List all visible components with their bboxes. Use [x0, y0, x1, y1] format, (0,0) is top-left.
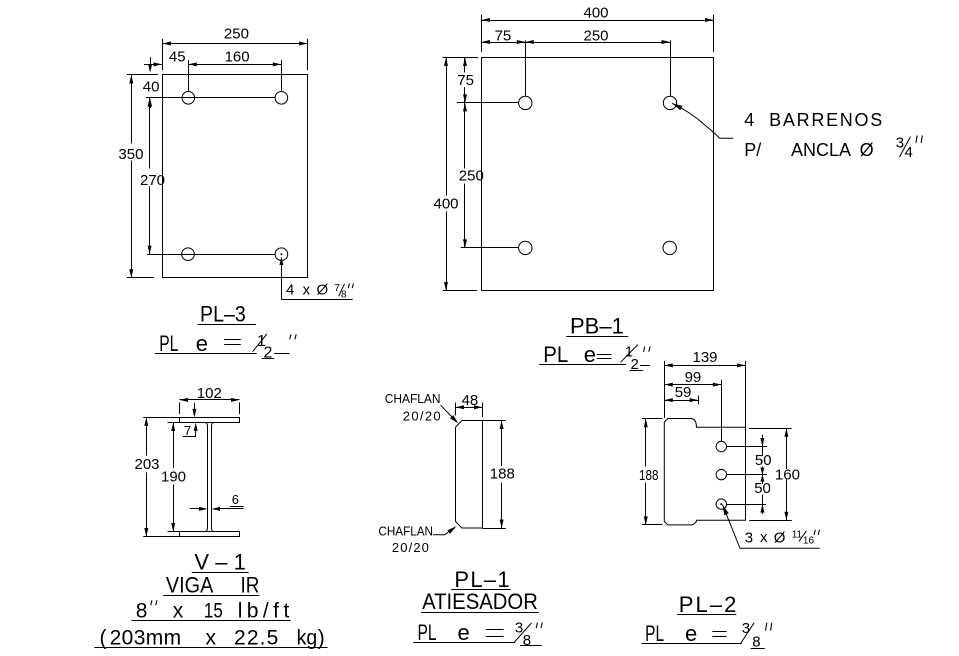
PB-1 top hole centerline: [457, 102, 519, 104]
svg-text:PL–2: PL–2: [679, 592, 739, 617]
PL-1 dim 48 extension left: [455, 403, 457, 416]
svg-text:8: 8: [136, 600, 148, 623]
PL-3 dim 270 line: [149, 98, 151, 169]
V-1 dim 203 extension bottom: [143, 536, 179, 538]
PL-3 hole leader: [281, 260, 283, 300]
svg-text:15: 15: [204, 600, 223, 623]
svg-text:4: 4: [744, 110, 754, 130]
PL-3 plate outline: [163, 75, 308, 278]
PL-2 dim 160 line: [786, 428, 788, 469]
PB-1 subtitle underline tail: [640, 365, 650, 367]
PL-2 dim 50 stack line: [762, 435, 764, 456]
svg-text:48: 48: [462, 392, 479, 409]
svg-text:7: 7: [334, 283, 340, 294]
PL-3 dim 40 upper leg: [150, 57, 152, 65]
V-1 dim 190 extension top: [168, 422, 180, 424]
svg-text:4: 4: [286, 282, 294, 299]
svg-text:50: 50: [755, 452, 772, 469]
PL-2 thickness underline: [642, 643, 742, 645]
PL-2 dim 188 extension top: [642, 418, 662, 420]
svg-text:102: 102: [197, 385, 222, 402]
PL-2 hole line middle: [727, 474, 767, 476]
PL-1 dim 188 extension bottom: [483, 528, 506, 530]
svg-text:P/: P/: [744, 140, 761, 160]
svg-text:lb/ft: lb/ft: [238, 600, 294, 623]
svg-text:CHAFLAN: CHAFLAN: [378, 524, 433, 539]
svg-text:ANCLA: ANCLA: [791, 140, 851, 160]
PL-2 dim 160 extension bottom: [749, 520, 792, 522]
svg-text:e: e: [458, 620, 470, 645]
PL-2 dim 59 line: [664, 400, 698, 402]
svg-text:BARRENOS: BARRENOS: [769, 110, 884, 130]
V-1 dim 7 underline: [183, 436, 196, 438]
svg-text:x: x: [173, 600, 184, 623]
svg-text:(: (: [100, 626, 107, 649]
PL-1 thickness underline under 8: [520, 645, 542, 647]
PL-3 hole bottom-left: [182, 248, 195, 261]
PL-3 dim 350 line: [131, 75, 133, 144]
svg-text:8: 8: [752, 634, 760, 651]
PB-1 bottom hole centerline: [461, 247, 519, 249]
svg-text:3: 3: [896, 135, 904, 152]
svg-text:7: 7: [184, 423, 191, 438]
PB-1 dim 400 top line: [482, 20, 714, 22]
svg-text:ATIESADOR: ATIESADOR: [422, 590, 538, 614]
PL-3 hole bottom-right: [275, 248, 288, 261]
PL-1 chamfer leader bottom: [433, 528, 455, 535]
svg-text:4: 4: [905, 144, 913, 161]
svg-text:50: 50: [754, 480, 771, 497]
PB-1 subtitle underline: [539, 364, 626, 366]
svg-text:203mm: 203mm: [110, 626, 182, 649]
PB-1 hole extension top-right: [670, 40, 672, 96]
PB-1 hole extension top-left: [525, 40, 527, 96]
svg-text:139: 139: [693, 349, 718, 366]
V-1 dim 102 extension left: [179, 403, 181, 415]
V-1 dim 7 upper leg: [194, 403, 196, 410]
PB-1 subtitle underline under 2: [630, 370, 644, 372]
svg-text:188: 188: [639, 467, 658, 484]
PL-2 dim 139 extension left: [664, 361, 666, 418]
PL-1 chamfer leader top: [441, 405, 457, 421]
PB-1 dim 400 top extension left: [481, 15, 483, 53]
PL-3 dim 160 line: [188, 64, 281, 66]
svg-text:e: e: [196, 331, 208, 356]
svg-text:250: 250: [224, 25, 249, 42]
PL-2 dim 139 extension right: [745, 361, 747, 427]
svg-text:Ø: Ø: [860, 140, 874, 160]
PL-3 top edge extension: [127, 74, 158, 76]
PB-1 title underline: [566, 336, 628, 338]
svg-text:270: 270: [140, 172, 165, 189]
V-1 dim 190 line: [173, 423, 175, 469]
svg-text:x: x: [206, 626, 217, 649]
PB-1 dim 75 left line: [464, 58, 466, 73]
svg-text:Ø: Ø: [317, 282, 329, 299]
PL-2 hole middle: [716, 469, 726, 479]
V-1 metric underline: [94, 647, 327, 649]
svg-text:20/20: 20/20: [392, 540, 430, 555]
svg-text:250: 250: [459, 168, 484, 185]
PL-3 hole top-left: [182, 92, 195, 105]
PL-2 hole centerline extension: [721, 380, 723, 442]
svg-text:PL: PL: [543, 343, 568, 367]
PL-2 title underline: [677, 614, 736, 616]
svg-text:kg: kg: [297, 627, 318, 650]
V-1 subtitle underline: [163, 595, 259, 597]
PB-1 dim 250 top line: [525, 42, 670, 44]
PL-1 title underline: [451, 589, 511, 591]
PL-3 dim 250 extension right: [307, 39, 309, 71]
PL-1 dim 48 extension right: [482, 403, 484, 418]
svg-text:x: x: [760, 529, 768, 546]
PB-1 leader to anchor hole: [672, 103, 682, 110]
svg-text:PB–1: PB–1: [570, 313, 624, 338]
PB-1 dim 400 left line: [446, 58, 448, 196]
PL-1 dim 48 line: [456, 407, 483, 409]
svg-text:6: 6: [232, 492, 239, 507]
svg-text:22.5: 22.5: [234, 626, 279, 649]
svg-text:203: 203: [135, 456, 160, 473]
PL-2 dim 188 line: [645, 419, 647, 467]
PL-2 hole bottom: [716, 499, 726, 509]
PB-1 hole bottom-right: [663, 241, 676, 254]
svg-text:): ): [318, 626, 325, 649]
svg-text:8: 8: [341, 289, 347, 300]
PL-3 subtitle underline under 2: [262, 358, 275, 360]
svg-text:40: 40: [143, 79, 160, 96]
svg-text:e: e: [584, 342, 596, 367]
PL-2 dim 139 line: [664, 365, 745, 367]
PL-2 hole top: [716, 441, 726, 451]
PL-1 dim 188 extension top: [483, 420, 506, 422]
svg-text:CHAFLAN: CHAFLAN: [385, 392, 441, 407]
PB-1 hole top-right: [663, 96, 676, 109]
svg-text:3: 3: [745, 529, 753, 546]
PL-2 dim 160 extension top: [749, 428, 792, 430]
PL-3 dim 250 extension left: [162, 39, 164, 70]
V-1 dim 6 underline: [230, 506, 244, 508]
V-1 dim 203 extension top: [143, 417, 179, 419]
PL-3 title underline: [198, 324, 256, 326]
PL-3 top hole centerline: [146, 97, 275, 99]
svg-text:190: 190: [161, 468, 186, 485]
PL-2 dim 188 extension bottom: [642, 524, 662, 526]
PB-1 dim 400 top extension right: [713, 15, 715, 53]
PL-2 dim 59 tick: [698, 396, 700, 405]
V-1 dim 6 right leg: [212, 507, 221, 511]
V-1 dim 190 extension bottom: [168, 531, 180, 533]
svg-text:16: 16: [803, 536, 815, 547]
svg-text:400: 400: [584, 4, 609, 21]
svg-text:45: 45: [169, 49, 186, 66]
V-1 dim 6 left leg: [190, 508, 199, 510]
PL-1 subtitle underline: [421, 612, 539, 614]
svg-text:59: 59: [675, 384, 692, 401]
PL-2 hole line bottom: [727, 504, 767, 506]
V-1 web: [205, 423, 208, 532]
PL-2 dim 99 line: [664, 384, 721, 386]
svg-text:VIGA: VIGA: [166, 573, 213, 597]
V-1 bottom flange: [180, 532, 240, 537]
svg-text:188: 188: [490, 466, 515, 483]
PB-1 dim 400 left extension top: [443, 57, 479, 59]
PL-2 hole leader: [723, 505, 729, 516]
svg-text:IR: IR: [241, 573, 260, 598]
svg-text:x: x: [303, 282, 311, 299]
svg-text:e: e: [685, 621, 697, 646]
PL-3 dim 40 lower leg: [148, 98, 152, 107]
V-1 dim 102 line: [180, 399, 240, 401]
PL-1 dim 188 line: [501, 421, 503, 467]
PL-3 hole extension right: [281, 60, 283, 91]
V-1 top flange: [180, 418, 240, 423]
PL-3 hole extension left: [188, 60, 190, 91]
PL-1 thickness underline: [413, 642, 515, 644]
PB-1 hole top-left: [519, 96, 532, 109]
svg-text:75: 75: [495, 27, 512, 44]
PL-3 bottom edge extension: [127, 277, 154, 279]
V-1 title underline: [192, 572, 249, 574]
PB-1 plate outline: [482, 58, 714, 291]
PL-1 plate outline with chamfers: [456, 421, 483, 529]
PB-1 hole bottom-left: [519, 241, 532, 254]
PL-2 thickness underline under 8: [751, 648, 765, 650]
svg-text:350: 350: [118, 146, 143, 163]
svg-text:PL–1: PL–1: [454, 567, 510, 592]
V-1 dim 102 extension right: [239, 403, 241, 415]
svg-text:20/20: 20/20: [403, 408, 442, 423]
svg-text:160: 160: [775, 466, 800, 483]
PL-3 bottom hole centerline: [147, 254, 275, 256]
svg-text:PL: PL: [159, 332, 178, 356]
PB-1 dim 400 left extension bottom: [443, 290, 477, 292]
PB-1 dim 250 left line: [464, 103, 466, 169]
V-1 dim 7 lower leg: [194, 423, 198, 432]
PB-1 dim 75 top line: [482, 42, 526, 44]
svg-text:75: 75: [457, 72, 474, 89]
PL-3 hole top-right: [275, 92, 288, 105]
svg-text:8: 8: [523, 632, 531, 649]
V-1 dim 203 line: [146, 417, 148, 455]
svg-text:250: 250: [584, 27, 609, 44]
svg-text:PL–3: PL–3: [200, 303, 246, 327]
svg-text:Ø: Ø: [774, 530, 786, 547]
PL-2 hole line top: [727, 446, 768, 448]
PL-3 subtitle underline: [155, 353, 257, 355]
svg-text:V–1: V–1: [194, 549, 252, 574]
PL-3 dim 45 outside arrow: [144, 64, 162, 66]
svg-text:160: 160: [225, 49, 250, 66]
V-1 size underline: [132, 620, 291, 622]
svg-text:400: 400: [434, 195, 459, 212]
PL-3 dim 250 line: [163, 43, 308, 45]
PL-2 plate outline with step and chamfers: [664, 419, 745, 525]
